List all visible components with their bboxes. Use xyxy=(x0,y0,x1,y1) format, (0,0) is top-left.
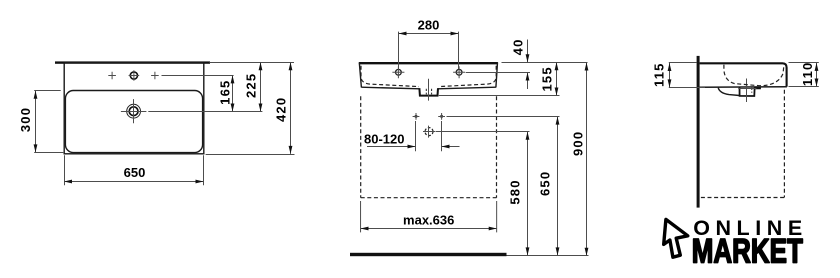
basin outer rectangle xyxy=(64,63,204,154)
tap hole symbol left (front) xyxy=(396,69,402,75)
dimension 650 xyxy=(557,117,559,256)
ext 110 bottom xyxy=(789,86,819,88)
drain box side xyxy=(740,88,761,97)
mounting hole cross left xyxy=(415,115,418,118)
drain outer circle xyxy=(127,104,141,118)
mounting ext lines vertical xyxy=(416,121,442,151)
ext line 300 top xyxy=(34,90,61,92)
ext 115 bottom xyxy=(669,87,705,89)
basin right edge xyxy=(496,62,498,87)
basin top and right edge xyxy=(700,63,787,86)
dimension 155 xyxy=(556,62,558,95)
svg-text:580: 580 xyxy=(508,179,523,204)
svg-text:225: 225 xyxy=(243,73,258,98)
ext line top right xyxy=(210,62,295,64)
svg-text:80-120: 80-120 xyxy=(364,131,404,146)
drain centerline xyxy=(428,79,430,101)
mounting hole cross right xyxy=(440,115,443,118)
dimension 80-120 arrows xyxy=(367,146,460,148)
svg-text:115: 115 xyxy=(651,62,666,87)
svg-text:280: 280 xyxy=(418,18,440,33)
svg-text:max.636: max.636 xyxy=(403,212,454,227)
ext top right (basin top to 900) xyxy=(502,62,588,64)
dashed cabinet side bottom xyxy=(701,197,786,199)
dimension 650 line xyxy=(64,181,204,183)
dashed bowl contour side xyxy=(724,65,784,86)
LEFT VIEW (top view) xyxy=(18,61,294,185)
svg-text:300: 300 xyxy=(18,107,33,132)
dimension 280 ext lines xyxy=(399,32,459,69)
under drain profile curve xyxy=(718,88,739,96)
LOGO xyxy=(664,216,803,271)
svg-text:165: 165 xyxy=(217,80,232,105)
max636 ext lines xyxy=(361,201,497,232)
drain crosshair xyxy=(121,99,146,123)
dashed cabinet box xyxy=(361,96,497,197)
svg-text:40: 40 xyxy=(511,38,526,55)
ext drain bottom right xyxy=(439,95,560,97)
drain box front xyxy=(419,88,438,95)
ext line drain right xyxy=(148,111,262,113)
ext 110 top xyxy=(789,62,819,64)
svg-text:650: 650 xyxy=(124,165,146,180)
dimension 110 xyxy=(816,63,818,87)
ext tap row right xyxy=(466,72,530,74)
dimension 40 xyxy=(527,40,529,90)
wall thick line xyxy=(697,56,700,208)
tap hole circle center xyxy=(130,72,137,79)
basin bottom edge xyxy=(361,87,496,89)
ext line tap row right xyxy=(162,75,234,77)
svg-text:650: 650 xyxy=(538,171,553,196)
ext siphon row right xyxy=(436,131,530,133)
svg-text:420: 420 xyxy=(273,97,288,122)
tap hole symbol right (front) xyxy=(456,69,462,75)
svg-text:MARKET: MARKET xyxy=(692,233,803,271)
tap hole cross left xyxy=(108,72,116,80)
dimension 280 line xyxy=(399,33,459,35)
dimension 300 line xyxy=(35,91,37,153)
dimension max.636 line xyxy=(361,228,497,230)
svg-text:900: 900 xyxy=(571,131,586,156)
ext mounting row right xyxy=(447,116,560,118)
svg-text:110: 110 xyxy=(800,62,815,87)
dimension 900 xyxy=(586,63,588,256)
dimension 115 xyxy=(669,63,671,87)
floor thick line xyxy=(350,253,507,256)
dashed bowl contour right xyxy=(439,66,497,87)
basin left edge xyxy=(359,62,361,87)
basin top edge thick xyxy=(359,62,498,64)
floor thin ext line xyxy=(507,255,589,257)
dimension 165 line xyxy=(232,75,234,111)
basin rim rounded rectangle xyxy=(65,91,202,153)
drain inner circle xyxy=(129,107,138,116)
tap hole cross right xyxy=(151,72,159,80)
ext line 650 right xyxy=(203,155,205,185)
cursor arrow icon xyxy=(664,219,688,257)
ext line 300 bottom xyxy=(34,152,63,154)
dimension 225 line xyxy=(260,62,262,111)
wall edge thick line xyxy=(55,61,210,63)
dashed cabinet side vertical xyxy=(783,90,785,198)
ext 115 top xyxy=(669,62,697,64)
dimension 580 xyxy=(527,132,529,256)
dashed lines inside drain box xyxy=(426,89,431,95)
MIDDLE VIEW (front view) xyxy=(350,18,589,257)
ext line bottom right xyxy=(206,154,295,156)
dashed line inside drain box side xyxy=(751,88,753,93)
ext line 650 left xyxy=(64,155,66,185)
drain centerline cross side xyxy=(738,79,756,103)
dashed bowl contour left xyxy=(361,66,419,87)
siphon symbol xyxy=(425,128,433,136)
svg-text:155: 155 xyxy=(540,66,555,91)
dimension 420 line xyxy=(290,62,292,154)
RIGHT VIEW (side view) xyxy=(651,56,818,208)
basin bottom line xyxy=(700,86,787,89)
